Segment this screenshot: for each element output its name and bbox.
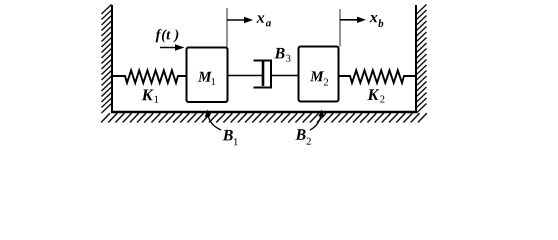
floor hatching bbox=[101, 113, 427, 122]
label K1 bbox=[142, 90, 159, 103]
right wall hatching bbox=[417, 5, 427, 114]
friction arrow B1 bbox=[205, 110, 221, 131]
label B3 bbox=[274, 48, 290, 62]
label B1 bbox=[223, 130, 238, 145]
spring K2 bbox=[339, 70, 417, 83]
right wall bbox=[415, 5, 417, 113]
damper B3 cylinder bbox=[254, 61, 272, 88]
node xb reference line bbox=[339, 9, 341, 47]
damper B3 rod right bbox=[271, 75, 299, 77]
left wall bbox=[111, 5, 113, 113]
label xb bbox=[370, 15, 384, 27]
friction arrow B2 bbox=[310, 110, 324, 131]
mass M2 bbox=[299, 47, 339, 102]
label K2 bbox=[367, 89, 384, 102]
spring K1 bbox=[113, 70, 187, 83]
label xa bbox=[257, 15, 272, 26]
label M1 bbox=[198, 72, 215, 85]
label f(t) bbox=[156, 29, 179, 42]
mass M1 bbox=[187, 48, 228, 103]
arrow xa bbox=[227, 17, 253, 23]
label M2 bbox=[310, 71, 328, 85]
node xa reference line bbox=[226, 8, 228, 47]
force arrow f(t) bbox=[160, 44, 185, 51]
damper B3 piston bbox=[262, 61, 265, 86]
damper B3 rod left bbox=[228, 75, 263, 77]
label B2 bbox=[295, 129, 310, 144]
floor bbox=[111, 111, 417, 114]
left wall hatching bbox=[102, 5, 112, 114]
arrow xb bbox=[340, 17, 366, 23]
